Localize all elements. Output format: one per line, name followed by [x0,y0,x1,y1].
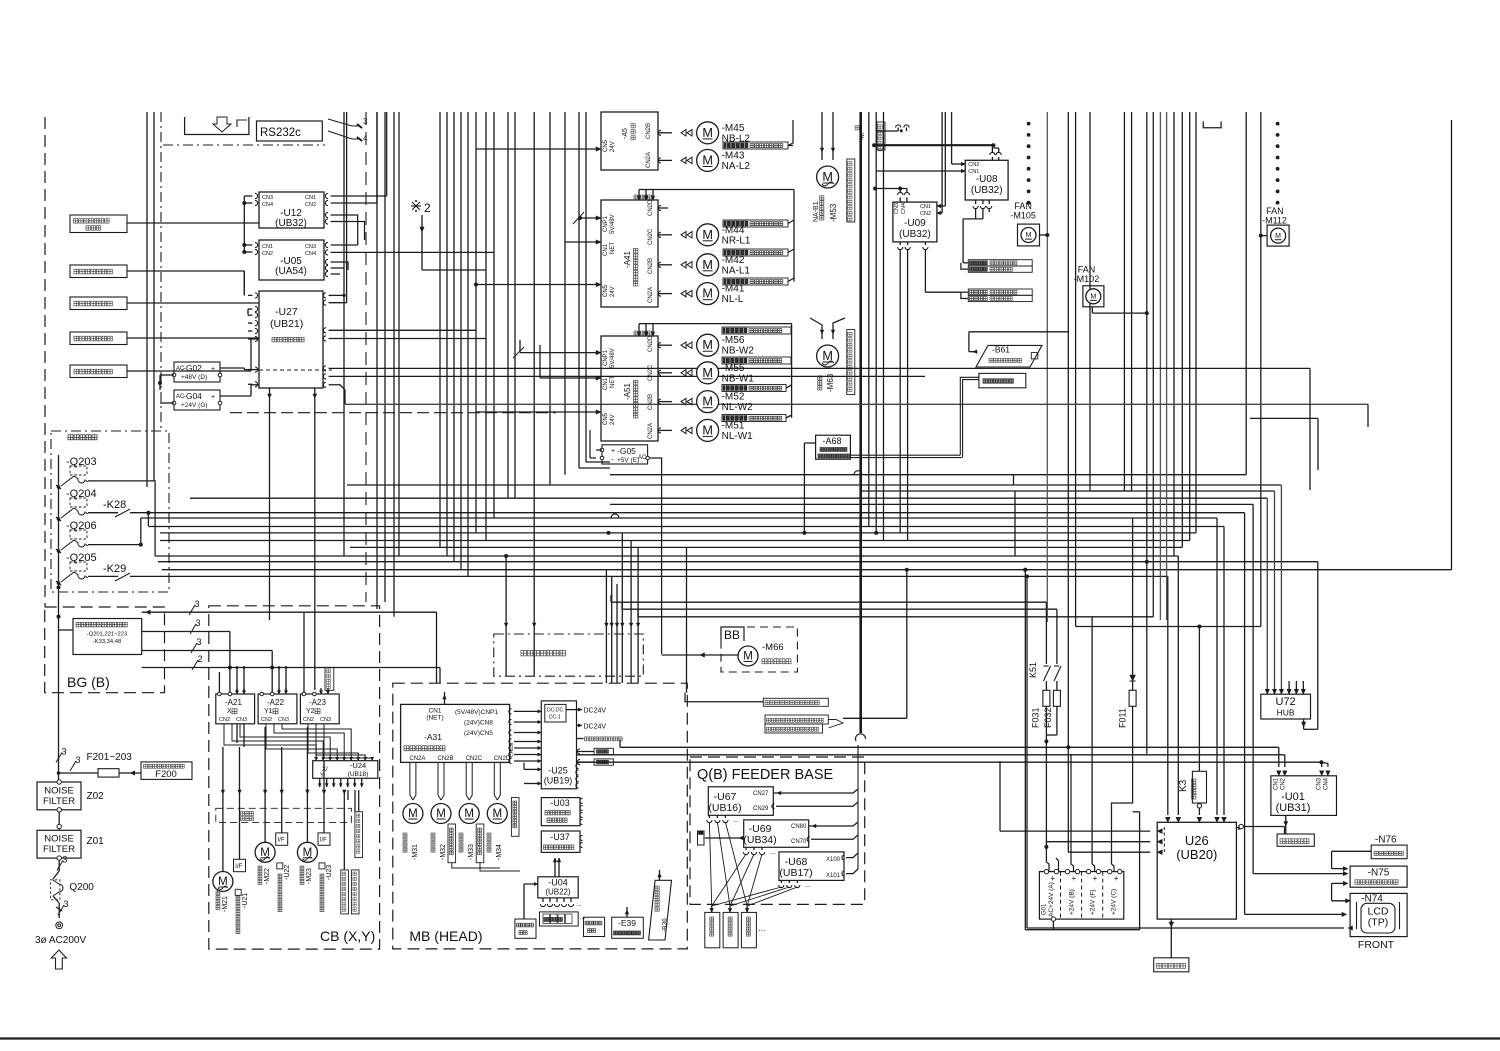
wire between filters [58,812,60,830]
wire h-bus y498 [190,497,1267,499]
wire h-bus y526 [148,526,1224,528]
svg-text:-M32: -M32 [440,844,447,860]
svg-text:3: 3 [62,747,67,757]
svg-text:F011: F011 [1118,708,1128,728]
wire h y762.2 to U01 CN3 CN4 fork [577,761,1322,763]
A51 CN2C motor M55 [658,372,672,374]
svg-text:(TP): (TP) [1368,917,1388,929]
wire v x148.4 down [147,513,149,526]
svg-text:-M102: -M102 [1074,274,1100,284]
U37 slip ring box [541,831,580,852]
sensor box NA-L2 [723,142,788,149]
switch contacts 3 and 4 top [328,119,352,126]
wire h y418 [230,417,1452,419]
F200 surge protector box [141,762,192,780]
wire v x1246.2 from top to y474.7 [1245,112,1247,475]
G05 left hook wires [596,449,602,451]
svg-text:-M63: -M63 [826,373,835,392]
U03-U01 wire risers [585,747,588,801]
hollow up arrow [51,950,66,969]
svg-text:...: ... [576,901,582,908]
wire h y928 into LCD with left arrow [1027,927,1344,929]
solenoid valve boxes under U04 [540,912,579,926]
svg-text:-A5: -A5 [622,128,629,139]
svg-text:F032: F032 [1043,707,1053,728]
G02 +48V box [174,362,220,382]
svg-text:-K28: -K28 [103,499,126,511]
svg-text:-M34: -M34 [496,844,503,860]
svg-text:-U04: -U04 [548,878,568,888]
wire G04 left stub [160,402,174,404]
U72 top pin arrows [1265,689,1269,694]
svg-text:Y1: Y1 [264,708,273,715]
wire CN5 24V arrow top block [476,148,601,150]
svg-text:...: ... [759,924,766,933]
U25 right pins [576,763,579,768]
svg-text:K3: K3 [1178,779,1189,792]
CB wiring A-boxes to U24 [224,724,316,757]
U03 line sensor amp box [541,798,580,826]
wire right corner x1368 x1310 x1318 [1367,404,1369,427]
svg-text:-U25: -U25 [548,766,568,776]
XY axis main power control box [73,619,142,655]
sensor box NL-W1 [722,415,786,422]
sensor box NL-W2 [722,385,786,392]
noise filter Z01 box [37,830,81,858]
wire v x942 down to U09 CN2 [941,112,943,213]
motor M63 cutter [817,345,839,367]
fuse F201 rect [98,769,119,777]
svg-text:+: + [611,448,615,455]
svg-text:X101: X101 [826,873,841,879]
bottom border frame line [0,1037,1500,1039]
A31 box [401,704,510,762]
label AC power control jtext [68,435,73,440]
svg-text:DC-1: DC-1 [549,715,561,721]
svg-text:M: M [464,808,474,820]
A68 box [816,435,851,459]
F200 jtext small [144,764,148,768]
U69 box [744,820,809,847]
wire v x550 [549,112,551,485]
wire h y873.6 into N75 [1253,873,1348,875]
CB(X,Y) dashed box [209,606,380,949]
parts recognition lamp box [979,373,1026,387]
motor M45 [697,122,719,144]
wire v x868.8 [868,112,870,527]
U72 box [1261,694,1311,719]
wire v x143.7 [143,526,145,541]
wire h y747.3 to U01 CN1 [620,746,1279,748]
svg-text:-U22: -U22 [284,865,291,880]
wire v x586 [585,112,587,462]
wire v x925 from U09 [924,249,926,292]
wire v x1189.7 [1189,112,1191,541]
wire v x1068 [1067,112,1069,747]
svg-text:+24V (G): +24V (G) [181,402,208,409]
supervisor1/2 double box [765,715,828,724]
svg-text:Z02: Z02 [87,791,105,802]
svg-text:CN2: CN2 [262,251,273,257]
U72 feed wires [1266,498,1268,694]
svg-text:2: 2 [198,654,203,664]
svg-text:FAN: FAN [1266,206,1284,216]
wire v to N74 pin [1331,883,1333,900]
wire v x1182.3 [1181,112,1183,547]
A51 sensor input label [634,331,638,335]
svg-text:CN1: CN1 [262,244,273,250]
sensor group2 boxes [968,289,1032,295]
wire h-bus y456 A68-to-lamp double wire [850,454,960,456]
A31 top pin [444,692,446,704]
wire h-bus y475 [610,474,1246,476]
svg-text:...: ... [770,849,776,856]
thick wire h y145 [874,144,993,146]
svg-text:DC24V: DC24V [584,724,607,731]
A68 right wires double to lamp [849,454,851,456]
wire v x1331.6 down to N75 [1331,851,1333,868]
U05 left pins [255,242,258,247]
diode F011 [1132,518,1134,690]
svg-text:(5V/48V)CNP1: (5V/48V)CNP1 [455,709,498,716]
svg-text:-A22: -A22 [267,698,284,707]
wire h-bus y504 to N75 corner [610,503,1253,505]
svg-text:I/F: I/F [320,838,327,844]
emergency stop switch label box 2 [70,332,127,345]
A41 CN2B motor M42 [658,264,672,266]
svg-text:-U23: -U23 [326,865,333,880]
note mark 2 with arrow [412,202,420,210]
svg-text:CN2C: CN2C [466,756,483,762]
svg-text:NET: NET [610,376,616,388]
svg-text:(UB32): (UB32) [275,218,307,229]
U25 left pins [538,768,542,771]
wire h to U08 CN1 [876,170,965,172]
U24 box [313,761,378,779]
sensor group2 bracket [961,291,968,293]
svg-text:M: M [702,423,713,437]
svg-text:-Q201,221~223: -Q201,221~223 [87,632,127,638]
wire h y831.1 to U26 [1000,830,1150,832]
A51 CN2B motor M52 [658,401,672,403]
svg-text:3ø AC200V: 3ø AC200V [35,935,86,946]
motor M56 [697,334,719,356]
svg-text:CN80: CN80 [791,824,807,830]
wire v x377 [376,112,378,609]
BG wire out 4 [142,667,440,669]
fuse F031 [1043,690,1050,706]
U68 box [779,852,844,881]
svg-text:CNP1: CNP1 [603,215,609,232]
svg-text:CN2A: CN2A [646,152,652,168]
B61 wire with arrow [968,332,970,352]
motor M53 backup [817,166,839,188]
U12 left pin chevrons [255,193,258,198]
line sensor light source box left [515,919,536,938]
svg-text:M: M [1090,294,1096,301]
wire v x494 [493,112,495,518]
wire G02 left stub [160,374,174,376]
A41 sensor input label [634,195,638,199]
transducer K3 box [1198,627,1200,772]
lamp double wire down-left to A68 [960,377,979,455]
U01 box [1271,776,1337,816]
U27 left pin bus verticals [243,271,245,295]
wire v x876.2 [875,112,877,533]
B61 camera parallelogram [976,345,1042,367]
svg-text:(UB16): (UB16) [708,802,741,814]
svg-text:(UB18): (UB18) [348,771,369,778]
feeder boxes [705,912,720,947]
wire v x1027 [1026,576,1028,928]
svg-text:M: M [1275,233,1281,240]
slash 3 below Z01 [58,860,60,871]
svg-text:CN4: CN4 [901,203,907,214]
U12 lower right pins [325,212,328,217]
wire v x1244.6 N74 feed [1244,513,1246,915]
A21 X-axis box [216,694,255,724]
svg-text:CN3: CN3 [278,717,289,723]
wire v x606 cable pin [605,570,607,683]
svg-text:F031: F031 [1031,707,1041,728]
motor M22 with encoder [255,842,275,862]
wire h-bus y491 [860,490,1275,492]
U27 right pin wires [329,294,344,296]
motor M21 [213,872,233,892]
wire h y754.8 to U01 CN2 [577,754,1285,756]
sensor bus right top block [788,145,793,147]
svg-text:+: + [1093,874,1098,883]
motor M42 [697,254,719,276]
svg-text:Q(B) FEEDER BASE: Q(B) FEEDER BASE [697,767,833,783]
svg-text:+: + [1114,874,1119,883]
slash 3 marks at fuse row [56,753,62,763]
svg-text:CN4: CN4 [1324,777,1330,790]
U12 right pin wires CN1 CN2 [325,193,328,198]
feeder bus hook curl [856,734,866,741]
U67 bottom pins [708,815,710,818]
svg-text:(UB31): (UB31) [1276,802,1311,814]
svg-text:(UB21): (UB21) [270,318,303,330]
wire v x883.5 [883,112,885,541]
svg-text:U26: U26 [1185,833,1209,848]
svg-text:CN1: CN1 [920,204,931,210]
U12 box [259,192,324,228]
wire v x1092 supply drop [1091,617,1093,864]
left dashed boundary x45 [44,117,46,607]
wire v x579 [578,112,580,468]
U69 CN80 wire [809,822,858,826]
wire v x906.8 supervisor bus [906,570,908,719]
svg-text:24V: 24V [610,141,616,152]
cable pin arrows above [504,623,508,627]
A22 top pins [260,692,264,696]
svg-text:+: + [1050,874,1055,883]
robot cable dash-dot box MB [494,634,644,676]
vertical label boxes right CB [341,870,349,914]
svg-text:K51: K51 [1028,662,1038,678]
svg-text:2: 2 [424,201,431,215]
svg-text:3: 3 [64,899,69,909]
rail bottom dot [57,585,61,589]
wire v x394 [393,112,395,617]
U72 bottom pin loop [1303,719,1305,729]
wire v x147 [146,112,148,487]
U27 box [259,291,323,388]
svg-text:CN2: CN2 [920,211,931,217]
svg-text:CN29: CN29 [753,806,769,812]
svg-text:X100: X100 [826,857,841,863]
A22 Y1-axis box [258,694,297,724]
svg-text:CN4: CN4 [262,202,273,208]
svg-text:-M21: -M21 [222,896,229,912]
svg-text:24V: 24V [610,414,616,425]
A22 pin feeds [278,668,280,693]
svg-text:MB (HEAD): MB (HEAD) [409,928,482,944]
supervisor board sensor box [763,698,828,706]
wire v x154 [153,112,155,481]
wire v x476 with junctions [475,112,477,533]
wire v x1153.3 [1152,112,1154,617]
wire h-bus y518 long [141,517,1217,519]
svg-text:(UB32): (UB32) [971,185,1003,196]
servo amp block top partial [601,112,658,170]
svg-text:M: M [702,395,713,409]
wires from AC box right side [154,555,156,557]
supervisor connector diagonals [828,720,843,729]
emergency stop switch label box 1 [70,297,127,310]
wire v x508 [507,112,509,498]
wire h-bus y547 [350,546,1182,548]
motor vertical labels M31 [403,833,407,837]
wire h y468 short [579,467,610,469]
N75 box [1350,866,1407,887]
svg-text:CN3: CN3 [305,244,316,250]
power unit terminals and + labels [1044,869,1048,873]
vertical labels M23 U23 [300,866,304,870]
svg-text:CN1: CN1 [1274,777,1280,790]
wire h-bus y602 [611,601,1046,603]
sensor box NA-L1 [723,249,788,256]
spare switch label box 1 [70,265,127,278]
A41 CN2D stub [658,207,668,209]
svg-text:(UA54): (UA54) [275,266,307,277]
A41 CN1 pin wire [565,241,601,243]
svg-text:CB (X,Y): CB (X,Y) [320,928,375,944]
wire v x534 robot cable pin [533,112,535,676]
LCD side bars [1356,902,1358,929]
svg-text:F200: F200 [155,769,177,780]
wire v x1025.3 [1024,570,1026,930]
svg-text:-M56: -M56 [722,335,745,346]
wire v x399 [398,112,400,556]
svg-text:CN2: CN2 [303,717,314,723]
svg-text:M: M [702,153,713,167]
power unit block outline [1039,872,1123,920]
svg-text:+24V (B): +24V (B) [1069,889,1076,915]
sensor group1 bracket [963,262,968,264]
wire v x907.6 from U09 down [907,249,909,540]
svg-text:(UB19): (UB19) [544,776,573,786]
stage ready switch label box [70,215,127,233]
U27 internal dashed line [259,369,332,371]
bracket with down arrow (printer symbol) [185,117,249,135]
wire emstop1 to U27 [127,302,259,304]
svg-text:-K29: -K29 [103,563,126,575]
BG wire out 3 [142,650,273,652]
sensor box NR-L1 [723,220,788,227]
wire Q206 row [88,544,141,546]
svg-text:-M112: -M112 [1262,216,1287,226]
supply terminal double circle [56,922,63,929]
svg-text:CN2A: CN2A [409,756,425,762]
wire supervisor bus corner [906,690,908,718]
svg-text:CNP1: CNP1 [603,349,609,366]
svg-text:BB: BB [724,628,740,642]
A21 pin feeds [236,668,238,693]
svg-text:3: 3 [62,855,67,865]
B36 board camera parallelogram [649,880,672,940]
U08 left pin arrows [961,162,965,166]
svg-text:M: M [493,808,503,820]
wire v x611 cable pin [611,576,613,683]
svg-text:CN2: CN2 [968,162,979,168]
svg-text:DC24V: DC24V [584,708,607,715]
motor M23 [297,842,317,862]
BG(B) dashed box [45,607,165,693]
svg-text:FILTER: FILTER [43,844,75,855]
wire v x344 [343,112,345,556]
U67 CN29 wire [776,802,858,806]
svg-text:+: + [211,366,215,373]
svg-text:-U37: -U37 [550,832,570,842]
U09 box [893,202,937,242]
BB label box [721,627,744,641]
wire v x1139.6 loop up [1139,812,1141,930]
U04 box [538,877,578,898]
small bracket top right [1203,122,1221,128]
U03 right pins [580,798,583,803]
G04 +24V box [174,390,220,410]
svg-text:24V: 24V [610,286,616,297]
origin sensor vertical box 1 [448,824,456,863]
svg-text:HUB: HUB [1277,708,1295,718]
svg-text:BG (B): BG (B) [67,674,110,690]
wire v K51 feeds [1045,602,1047,664]
svg-text:M: M [743,651,753,663]
svg-text:-A23: -A23 [309,698,326,707]
svg-text:CN2B: CN2B [648,394,654,410]
RS232c box [257,121,323,141]
svg-text:3: 3 [196,618,201,628]
svg-text:M: M [702,258,713,272]
wire v x951.6 to U08 CN2 [951,112,953,164]
wire v x1068 down to U26 pin [1066,745,1070,749]
wire v x1090 [1089,112,1091,491]
CB motor wires down from A boxes [222,747,224,872]
svg-text:I/F: I/F [235,864,242,870]
wire v x1166.6 gray [1166,112,1168,620]
power unit bottom terminal [1051,917,1055,921]
wire h-bus y617 [638,616,1153,618]
U26 bottom pin [1170,919,1172,958]
svg-text:CN3: CN3 [894,203,900,214]
power unit dividers dashed [1060,872,1062,920]
svg-text:Q200: Q200 [69,882,94,893]
svg-text:-M43: -M43 [722,150,745,161]
svg-text:-M53: -M53 [829,203,838,222]
svg-text:(UB22): (UB22) [545,888,571,897]
